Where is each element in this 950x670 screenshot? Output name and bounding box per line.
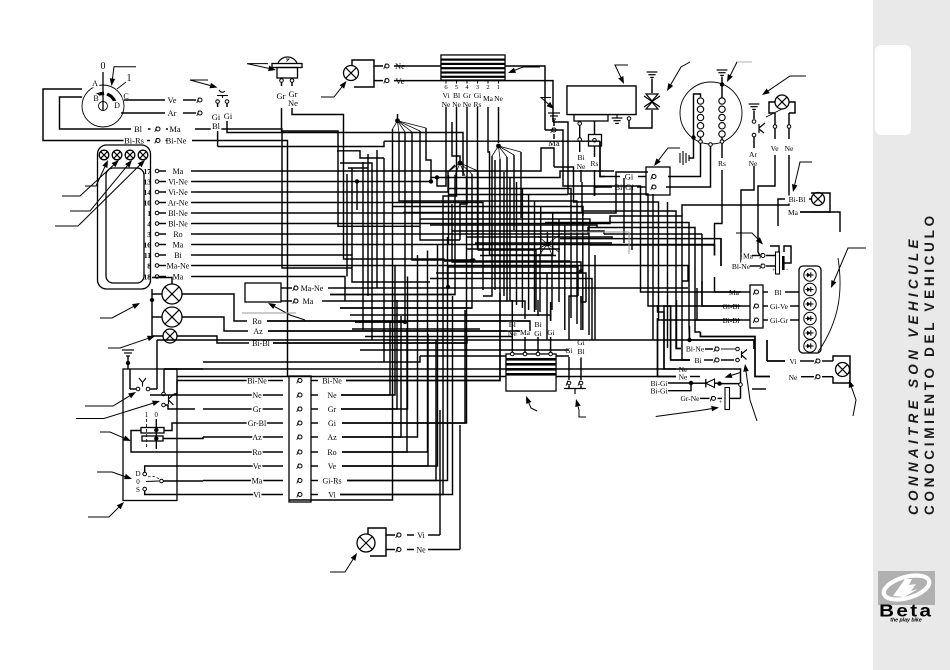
w (340, 346, 443, 495)
wire row11 (196, 255, 430, 282)
ground (122, 350, 134, 356)
leader to indicator lamp (321, 81, 347, 97)
wire (281, 287, 292, 289)
pin (736, 347, 740, 351)
riser Gi (342, 310, 467, 423)
svg-text:Vi: Vi (417, 531, 425, 540)
svg-text:the play bike: the play bike (890, 618, 922, 624)
wire to GiBl 3way (702, 281, 740, 306)
connector pin (578, 381, 583, 386)
w (720, 383, 741, 385)
pin (736, 358, 740, 362)
w (516, 182, 518, 243)
pin (155, 253, 159, 257)
wire (721, 84, 723, 98)
w (534, 261, 536, 312)
svg-text:Gi: Gi (547, 328, 555, 337)
pin (155, 201, 159, 205)
wire row16 (196, 245, 715, 256)
CDI pin (487, 80, 489, 84)
w (367, 154, 369, 296)
junction (470, 258, 474, 262)
wire (166, 140, 168, 142)
wire (550, 337, 552, 352)
horn body (277, 68, 298, 79)
lamp bus (152, 289, 163, 336)
connector pin (651, 174, 656, 179)
wire (730, 397, 741, 399)
svg-text:5: 5 (455, 84, 458, 91)
junction (429, 179, 433, 183)
wire (753, 137, 755, 148)
cluster lamp 3 (125, 150, 135, 160)
w (652, 194, 654, 296)
junction (720, 82, 724, 86)
w (420, 355, 569, 357)
w (420, 131, 460, 240)
wire (790, 319, 799, 321)
wire (605, 176, 620, 178)
pin (549, 352, 553, 356)
w (664, 312, 690, 369)
leader to front brake switch (190, 80, 218, 88)
wire Rs down (715, 170, 723, 245)
w (426, 128, 431, 178)
pin (155, 264, 159, 268)
w (490, 254, 553, 256)
CDI pin (456, 80, 458, 84)
pin (290, 79, 294, 83)
wire (159, 254, 166, 256)
speedo lamp 1 (162, 284, 182, 304)
leader to ignition switch (110, 67, 136, 86)
w (452, 231, 604, 234)
sidebar background (873, 0, 950, 670)
wire to stop sw (628, 223, 754, 350)
w (289, 129, 393, 500)
wire (163, 369, 165, 392)
CDI unit box overdraw (441, 55, 505, 80)
riser Vi (340, 296, 453, 495)
wire Gi 2 run (227, 121, 463, 176)
tail lamp (836, 363, 850, 377)
pin (143, 487, 147, 491)
wire Ve down (758, 155, 775, 256)
junction (395, 118, 400, 123)
w (330, 175, 455, 295)
battery (772, 252, 788, 274)
svg-text:Ro: Ro (173, 230, 182, 239)
riser Ve (342, 245, 438, 467)
wire long 340 (157, 339, 690, 341)
w (546, 273, 548, 340)
w (203, 494, 283, 496)
wire (788, 113, 790, 125)
pin (536, 352, 540, 356)
CDI pin (445, 80, 447, 84)
regulator ground stem (616, 115, 618, 119)
ignition coil box overdraw (506, 354, 556, 391)
w (403, 212, 583, 214)
wire Ro (267, 321, 530, 331)
svg-text:16: 16 (144, 241, 152, 250)
svg-text:1: 1 (127, 73, 132, 84)
wire Gi left v (600, 141, 605, 176)
leader to resistor box (268, 303, 305, 320)
wire (651, 79, 653, 94)
pin (523, 352, 527, 356)
junction (545, 242, 550, 247)
pin (699, 140, 703, 144)
pin (162, 392, 166, 396)
battery bracket (770, 246, 779, 252)
pin (146, 387, 150, 391)
svg-text:1: 1 (145, 411, 149, 419)
svg-text:Ma: Ma (173, 167, 184, 176)
svg-text:8: 8 (147, 262, 151, 271)
LED bar bracket (818, 258, 840, 352)
junction (355, 179, 359, 183)
leader to lamps (100, 303, 140, 318)
wire (183, 112, 196, 114)
svg-text:+: + (719, 400, 723, 406)
connector pin (297, 450, 302, 455)
wire magneto BiRs (666, 147, 711, 188)
junction (435, 175, 439, 179)
w (311, 422, 318, 424)
junction (150, 298, 154, 302)
wire (156, 340, 158, 389)
wire regulator to flasher (629, 110, 652, 128)
w (664, 368, 676, 370)
w (137, 451, 203, 453)
w (480, 255, 556, 257)
wire (800, 211, 811, 213)
w (152, 278, 172, 285)
wire (637, 186, 646, 188)
w (591, 308, 593, 340)
w (477, 171, 479, 250)
w (330, 294, 455, 296)
w (623, 178, 625, 243)
svg-text:Ne: Ne (785, 144, 794, 153)
pin (511, 352, 515, 356)
connector pin (155, 127, 160, 132)
w (203, 480, 283, 482)
svg-text:10: 10 (144, 199, 152, 208)
LED 5 (804, 327, 816, 339)
svg-text:Ro: Ro (252, 448, 261, 457)
magneto ground comb (680, 151, 689, 165)
svg-text:Bi: Bi (577, 153, 584, 162)
wire (740, 305, 750, 307)
w (145, 466, 203, 472)
wire (159, 212, 166, 214)
wire (191, 233, 196, 235)
w (346, 174, 348, 277)
svg-text:Bi: Bi (694, 356, 701, 365)
ground (749, 104, 760, 109)
w (588, 225, 590, 335)
wire row13 (196, 171, 614, 182)
w (539, 254, 541, 312)
w (521, 249, 523, 308)
pin (578, 138, 582, 142)
wire (579, 142, 581, 153)
svg-text:11: 11 (144, 251, 151, 260)
indicator lamp (344, 66, 359, 81)
w (466, 248, 560, 250)
junction (689, 381, 693, 385)
w (340, 261, 472, 309)
connector pin (760, 264, 765, 269)
w (631, 186, 633, 250)
wire BiBl (273, 342, 467, 344)
w (311, 494, 318, 496)
wire (537, 300, 539, 316)
svg-text:D: D (114, 101, 120, 110)
w (150, 388, 157, 390)
wire (428, 549, 460, 551)
w (452, 122, 460, 163)
w (494, 160, 496, 290)
w (203, 380, 283, 382)
svg-text:Vi: Vi (789, 357, 796, 366)
w (384, 140, 600, 142)
CDI unit box (441, 55, 505, 80)
wire to Ma 3way (715, 277, 742, 292)
capacitor/horn battery (719, 388, 730, 410)
leader to position lamp (792, 162, 812, 192)
w (767, 360, 785, 362)
LED 2 (804, 283, 816, 295)
wire (594, 121, 596, 135)
w (348, 167, 368, 169)
w (337, 151, 384, 158)
wire (741, 291, 750, 293)
LED 6 (804, 340, 816, 352)
w (582, 182, 620, 211)
svg-text:6: 6 (444, 84, 448, 91)
svg-text:S: S (136, 486, 140, 494)
leader box corner (88, 502, 124, 517)
w (430, 279, 592, 309)
w (466, 176, 468, 310)
wire (568, 357, 570, 380)
leader to sensor (575, 399, 586, 417)
svg-text:Ro: Ro (252, 317, 261, 326)
wire (191, 191, 196, 193)
svg-text:Gi-Gr: Gi-Gr (770, 316, 788, 325)
svg-text:Ma: Ma (483, 94, 494, 103)
wire Az (268, 330, 520, 332)
w (658, 318, 677, 377)
connector pin (710, 396, 715, 401)
w (509, 237, 511, 301)
headlamp bracket L (769, 102, 775, 113)
wire (809, 198, 811, 200)
pin (162, 403, 166, 407)
leader to horn (247, 64, 276, 72)
wire (191, 265, 196, 267)
w (129, 369, 131, 389)
pin (155, 243, 159, 247)
connector pin (384, 64, 389, 69)
leader to battery (736, 233, 763, 245)
w (671, 306, 690, 360)
riser GiRs (347, 237, 448, 481)
stop transistor (742, 350, 748, 360)
w (545, 222, 628, 224)
speedo lamp 3 (163, 329, 177, 343)
wire (445, 107, 447, 122)
wire (152, 293, 162, 295)
star S1 rays (393, 121, 427, 133)
leader to LED bar (831, 248, 866, 288)
svg-text:Bi-Bl: Bi-Bl (789, 195, 806, 204)
wire (217, 131, 219, 147)
wire (594, 146, 596, 157)
connector pin (815, 374, 820, 379)
wire (159, 191, 166, 193)
w (576, 267, 578, 324)
wire (822, 360, 833, 362)
w (540, 315, 551, 321)
svg-text:Bl: Bl (134, 124, 143, 134)
leader cluster lamp3 (70, 160, 132, 211)
wire horn Gr (282, 108, 421, 226)
svg-text:Rs: Rs (591, 159, 599, 168)
pin (216, 100, 220, 104)
wire (407, 534, 414, 536)
w (436, 185, 438, 187)
svg-text:Ve: Ve (328, 462, 337, 471)
connector pin (714, 358, 719, 363)
riser Az (342, 255, 418, 437)
w (715, 382, 720, 384)
w (341, 322, 390, 395)
svg-text:Ar-Ne: Ar-Ne (168, 199, 189, 208)
svg-text:Ne: Ne (327, 391, 337, 400)
w (568, 386, 570, 389)
w (509, 177, 511, 237)
w (690, 376, 700, 378)
svg-text:Ne: Ne (679, 373, 688, 382)
svg-text:18: 18 (144, 273, 152, 282)
regulator overdraw (567, 86, 636, 115)
svg-text:Bl-Ne: Bl-Ne (168, 209, 188, 218)
pickup contact (759, 123, 765, 133)
w (430, 225, 597, 228)
w (460, 273, 586, 302)
junction (579, 269, 583, 273)
leader tail (752, 388, 766, 390)
leader to tail lamp (849, 380, 856, 416)
pin (511, 352, 515, 356)
wire (553, 150, 555, 167)
wire to magneto ground (689, 138, 694, 159)
pin (627, 117, 631, 121)
wire (394, 65, 414, 67)
connector pin (297, 421, 302, 426)
svg-text:Bi: Bi (534, 320, 541, 329)
leader to flasher (667, 62, 690, 91)
wire Gi run (218, 141, 384, 146)
wire (691, 382, 706, 384)
wire Ne long1 (164, 368, 664, 370)
pin (752, 120, 756, 124)
w (721, 348, 735, 350)
wire cdi3 (477, 122, 479, 250)
wire (721, 77, 723, 85)
connector pin (297, 492, 302, 497)
riser BiNe (346, 293, 500, 381)
w (405, 201, 577, 211)
headlamp (775, 95, 789, 109)
connector pin (760, 253, 765, 258)
wire MaNe row (334, 287, 688, 289)
wire (281, 83, 283, 87)
w (767, 360, 785, 362)
connector 9way (289, 376, 311, 502)
w (383, 158, 385, 362)
ignition switch contacts (94, 92, 117, 104)
connector pin (815, 359, 820, 364)
junction (717, 381, 721, 385)
ignition switch body (82, 85, 124, 127)
wire cdi2 (488, 122, 490, 255)
wire row8 (196, 266, 688, 282)
w (347, 340, 436, 481)
junction (471, 258, 475, 262)
wire (700, 137, 702, 140)
wire (700, 397, 710, 399)
cluster lamp 4 (138, 150, 148, 160)
w (528, 256, 530, 311)
wire (477, 107, 479, 122)
w (604, 233, 702, 235)
w (671, 359, 690, 361)
w (550, 310, 552, 321)
LED 4 (804, 312, 816, 324)
w (448, 267, 578, 296)
svg-text:Bl: Bl (774, 288, 781, 297)
wire (121, 112, 165, 114)
wire Ve from lamp (414, 81, 553, 122)
svg-text:Gr: Gr (253, 405, 262, 414)
wire (191, 254, 196, 256)
svg-text:Gr-Ne: Gr-Ne (680, 394, 700, 403)
wire (638, 176, 646, 178)
svg-text:Bl-Ne: Bl-Ne (168, 220, 188, 229)
wire (466, 107, 468, 122)
svg-text:Gr: Gr (463, 91, 471, 100)
pin (155, 275, 159, 279)
ignition pos-1 tick (117, 82, 126, 89)
w (164, 480, 204, 482)
w (436, 272, 578, 274)
wire BiNe ign (192, 141, 288, 377)
w (513, 155, 515, 230)
pin (593, 139, 597, 143)
w (376, 150, 378, 288)
wire Ma row (203, 356, 420, 362)
fuse (589, 135, 602, 147)
wire row3 (196, 228, 700, 333)
leader light switch (100, 432, 131, 441)
headlamp leader2 (766, 109, 782, 117)
svg-text:3: 3 (147, 230, 151, 239)
